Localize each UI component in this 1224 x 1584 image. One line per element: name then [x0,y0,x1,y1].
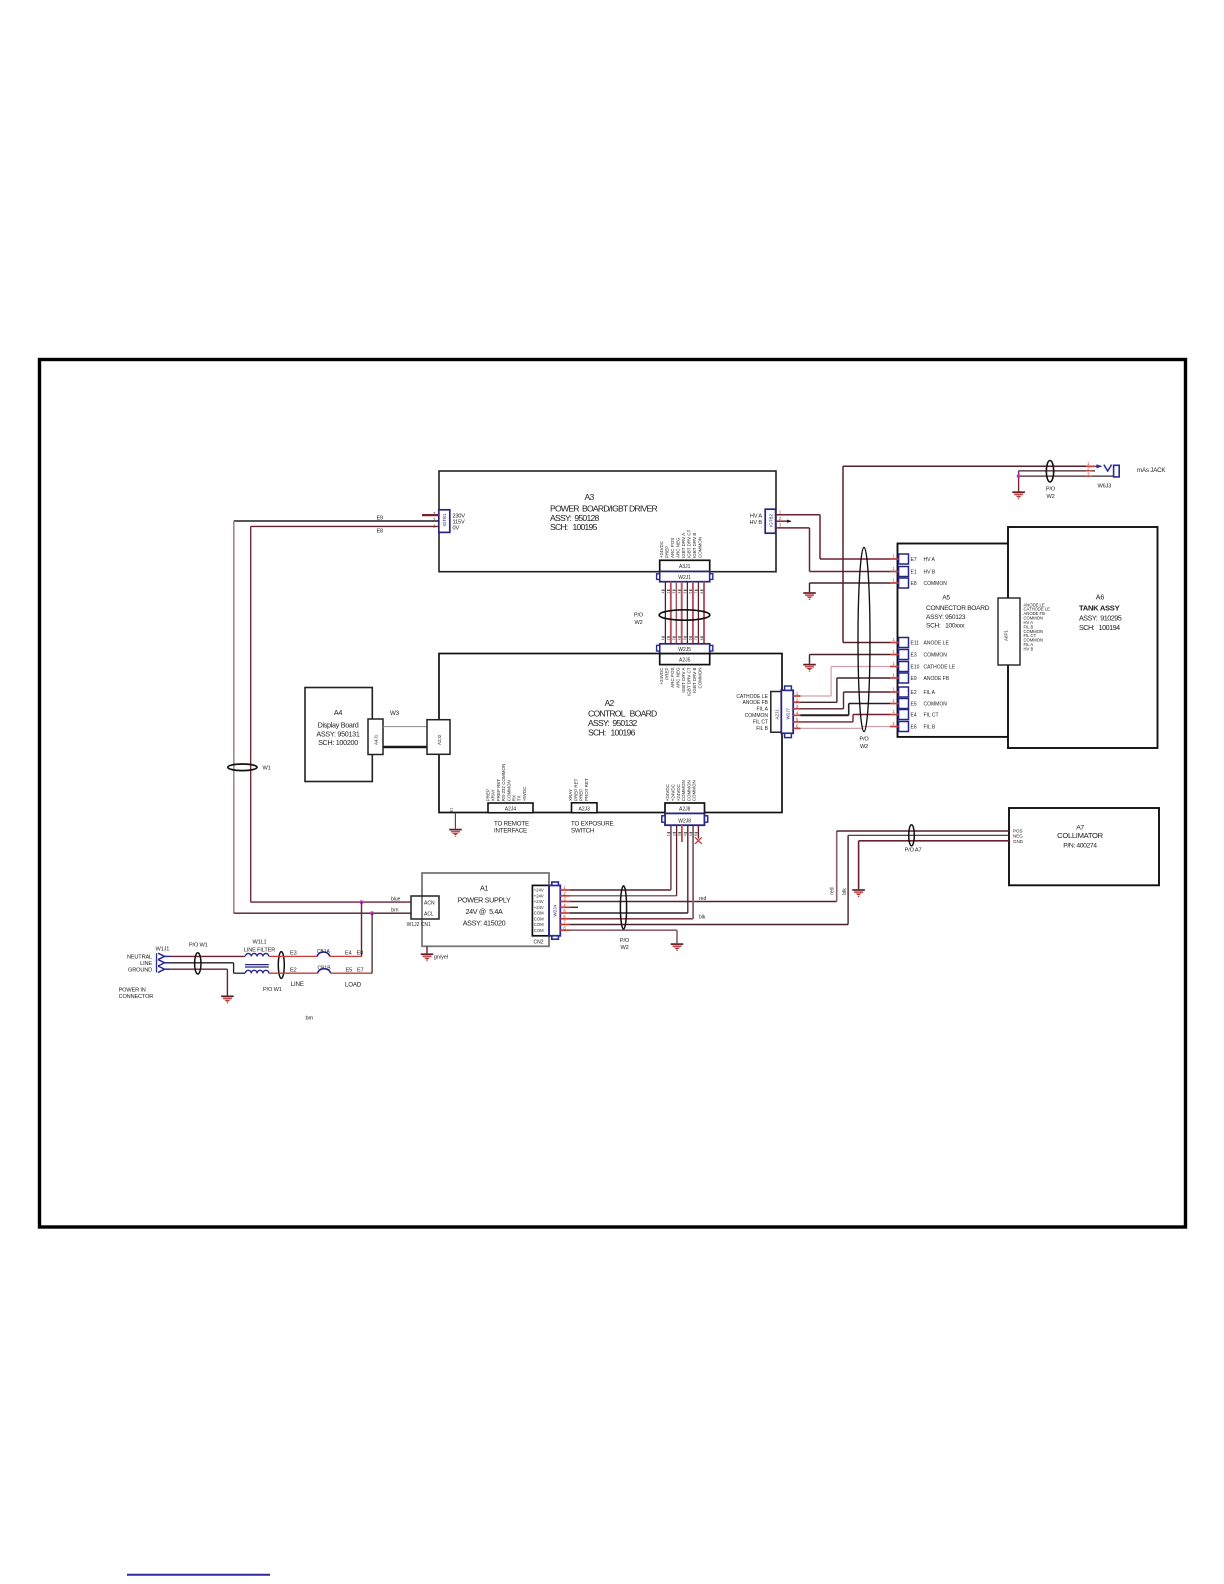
svg-text:3: 3 [672,592,676,594]
cable marker P/O W2 tall ellipse [858,547,870,750]
IGTB2 pin numbers [779,510,782,528]
svg-text:IGTB1: IGTB1 [442,513,447,527]
connector A6P1 [998,598,1020,665]
svg-text:COM: COM [534,922,544,927]
ground gn/yel at A1 [421,946,448,960]
svg-text:W2J5: W2J5 [678,647,691,653]
svg-text:NEG: NEG [1013,833,1023,838]
svg-text:E4: E4 [345,951,352,957]
svg-text:24V @ 5.4A: 24V @ 5.4A [465,907,503,916]
svg-text:+24VDC: +24VDC [676,783,681,801]
cable marker P/O W1 ellipse (left) [189,942,208,974]
terminal E5 COMMON on A5 [890,698,947,709]
svg-text:1: 1 [892,649,895,654]
svg-text:COM: COM [534,928,544,933]
svg-text:E2: E2 [911,690,917,696]
CN2 pin stubs and numbers [560,885,570,930]
svg-text:mAs JACK: mAs JACK [1137,467,1166,474]
breaker CB1B [317,965,331,973]
svg-text:A3J1: A3J1 [679,564,691,570]
svg-text:E6: E6 [911,725,917,731]
cable marker P/O A7 ellipse [905,825,922,854]
svg-text:PREP: PREP [664,668,669,680]
svg-text:LINE FILTER: LINE FILTER [244,947,275,953]
connector A2J3 exposure switch [572,803,598,813]
svg-text:E5: E5 [346,967,353,973]
svg-text:7: 7 [694,592,698,594]
svg-text:+24VDC: +24VDC [665,783,670,801]
wire mAs jack pin1 to E11 [843,466,1092,642]
svg-text:A1: A1 [480,884,488,893]
svg-text:+24V: +24V [534,893,544,898]
svg-text:P/O W1: P/O W1 [263,987,282,993]
svg-text:+24V: +24V [534,899,544,904]
svg-text:+24VDC: +24VDC [671,783,676,801]
svg-text:E7: E7 [357,967,364,973]
connector IGTB2 [765,509,775,533]
svg-text:E3: E3 [911,653,917,659]
svg-text:2: 2 [667,638,671,640]
label POWER IN CONNECTOR [119,988,154,1001]
svg-text:E3: E3 [290,951,297,957]
connector A2J1 [771,692,782,733]
svg-text:POWER BOARD/IGBT DRIVER: POWER BOARD/IGBT DRIVER [550,504,657,514]
svg-text:5: 5 [683,638,687,640]
connector A2J4 [488,803,533,813]
node labels E4 E8 [345,951,363,957]
svg-text:A2J1: A2J1 [774,709,779,720]
block A3 power board/IGBT driver [439,471,776,572]
svg-text:COM: COM [534,916,544,921]
terminal E10 CATHODE LE on A5 [890,661,956,672]
A2J8 pin labels (vertical) [665,780,697,801]
svg-text:1: 1 [892,687,895,692]
wire bundle tick marks row2 [661,637,704,640]
svg-text:POWER SUPPLY: POWER SUPPLY [458,896,511,905]
svg-text:COMMON: COMMON [745,713,769,719]
wire ground drop [170,969,227,995]
svg-text:W2J4: W2J4 [553,905,558,917]
svg-text:E1: E1 [911,570,917,576]
svg-text:COMMON: COMMON [698,668,703,689]
svg-text:SCH: 100xxx: SCH: 100xxx [926,623,965,630]
svg-text:W6J3: W6J3 [1098,484,1112,490]
wire E8 COMMON to ground [810,583,891,592]
wire line to line filter [170,963,245,973]
svg-text:ANODE FB: ANODE FB [924,676,950,682]
svg-text:+24V: +24V [534,905,544,910]
svg-text:SCH: 100200: SCH: 100200 [318,738,358,747]
svg-text:W2J1: W2J1 [678,575,691,581]
wire bundle tick marks row1 [661,590,704,593]
svg-text:W2: W2 [1046,494,1054,500]
connector CN2 [532,885,549,945]
IGTB2 pin labels [750,514,763,526]
svg-text:TO REMOTE: TO REMOTE [494,821,529,828]
svg-text:1: 1 [667,834,671,836]
A2J3 pin labels (vertical) [568,778,589,801]
svg-text:2: 2 [667,592,671,594]
svg-text:P/O: P/O [859,737,869,743]
svg-text:1: 1 [1087,461,1090,466]
wire jack pin2 to ground junction [1019,471,1095,492]
svg-text:red: red [699,896,706,902]
connector W1J1 power in [156,947,170,973]
svg-text:P/N: 400274: P/N: 400274 [1063,843,1097,850]
footer rule [127,1574,270,1576]
svg-text:COMMON: COMMON [924,702,948,708]
svg-text:blk: blk [699,914,706,920]
svg-text:PREP: PREP [664,546,669,558]
cable marker P/O W2 ellipse (jack) [1046,461,1056,500]
svg-text:W1J1: W1J1 [156,947,170,953]
wire E9: IGTB1 pin2 to ACL run [234,521,439,913]
wire A2J1 pin6 to E6 [801,727,891,729]
line filter W1L1 [244,940,275,974]
wire jack pin3 sleeve [1019,475,1114,477]
connector W2J8 [662,813,708,825]
svg-text:CATHODE LE: CATHODE LE [924,665,956,671]
svg-text:COMMON: COMMON [924,581,948,587]
svg-text:7: 7 [694,638,698,640]
svg-text:ARC NEG: ARC NEG [675,667,680,688]
wire E3 COMMON to ground [810,655,891,664]
terminal E11 ANODE LE on A5 [890,637,949,648]
A2J5 pin labels (vertical) [659,667,703,696]
terminal E2 FIL A on A5 [890,687,936,698]
wire CN2 pin4 stub [570,906,578,908]
cable marker P/O W2 ellipse (power wires) [620,886,630,951]
svg-text:1: 1 [661,592,665,594]
svg-text:SCH: 100195: SCH: 100195 [550,522,598,532]
svg-text:SCH: 100194: SCH: 100194 [1079,623,1120,632]
svg-text:4: 4 [678,638,682,640]
svg-text:HV B: HV B [750,520,763,526]
wire E2 segment [269,972,318,974]
ground CN2 pin8 [671,944,684,951]
jack pin numbers [1087,461,1090,477]
connector A2J2 [427,720,450,755]
wire E8: IGTB1 pin1 to ACN run [251,526,439,902]
svg-text:P/O W1: P/O W1 [189,942,208,948]
svg-text:A2J5: A2J5 [679,657,691,663]
svg-text:A3: A3 [584,492,594,502]
svg-text:HV B: HV B [1024,647,1034,652]
svg-text:E4: E4 [911,713,917,719]
wire A2J1 pin4 to E5 [801,704,891,716]
svg-text:POWER IN: POWER IN [119,988,146,994]
svg-text:ARC POS: ARC POS [670,668,675,688]
cable W3 [383,710,427,747]
junction dot jack ground [1017,474,1021,478]
wire IGTB1 pin3 stub [422,514,439,516]
svg-text:3: 3 [779,523,782,528]
W2J8 wire tick marks [667,833,699,836]
connector W2J5 [657,644,713,654]
block A6 tank assy [1008,527,1158,748]
connector W2J7 [781,686,793,738]
svg-text:NEUTRAL: NEUTRAL [127,955,152,961]
svg-text:IGBT DRV CT: IGBT DRV CT [687,667,692,696]
node labels E5 E7 [346,967,364,973]
breaker CB1A [317,949,331,957]
svg-text:W1J2 CN1: W1J2 CN1 [407,922,431,928]
svg-text:3: 3 [678,834,682,836]
svg-text:COMMON: COMMON [686,780,691,801]
svg-text:TANK ASSY: TANK ASSY [1079,604,1120,613]
block A7 collimator [1009,808,1159,885]
svg-text:1: 1 [892,578,895,583]
terminal E7 HV A on A5 [890,554,936,565]
svg-text:1: 1 [892,566,895,571]
block A5 connector board [898,544,1009,737]
svg-text:E1: E1 [450,807,454,812]
svg-text:E5: E5 [911,702,917,708]
svg-text:COM: COM [534,911,544,916]
svg-text:1: 1 [892,721,895,726]
svg-text:2: 2 [672,834,676,836]
svg-text:IGBT DRV B: IGBT DRV B [692,668,697,693]
svg-text:W2: W2 [620,945,628,951]
wire CB1B load to junction [331,913,373,973]
svg-text:A4: A4 [334,708,342,717]
svg-text:1: 1 [892,554,895,559]
ground E8 [803,593,816,600]
svg-text:ACN: ACN [424,900,435,906]
wire CN2 pin5 to W2J8 w4 [570,825,688,913]
svg-text:blk: blk [842,888,848,895]
svg-text:ARC NEG: ARC NEG [675,537,680,558]
svg-text:ASSY: 415020: ASSY: 415020 [463,919,506,928]
ground power-in [221,996,234,1003]
svg-text:1: 1 [661,638,665,640]
wire CN2 pin2 to W2J8 w2 [570,825,677,896]
svg-text:ACL: ACL [424,911,434,917]
svg-text:SWITCH: SWITCH [571,828,594,835]
wire IGTB2 pin1 to E7 [776,515,890,559]
svg-text:6: 6 [689,638,693,640]
svg-text:LINE: LINE [140,961,152,967]
svg-text:4: 4 [678,592,682,594]
connector A2J5 [660,654,710,665]
wire A2J1 pin5 to E4 [801,715,891,722]
svg-text:IGBT DRV CT: IGBT DRV CT [687,529,692,558]
svg-text:COMMON: COMMON [692,780,697,801]
terminal E8 COMMON on A5 [890,578,947,589]
svg-text:W2: W2 [860,744,868,750]
terminal E9 ANODE FB on A5 [890,673,950,684]
svg-text:4: 4 [684,834,688,836]
svg-text:CB1B: CB1B [317,965,331,971]
terminal E1 HV B on A5 [890,566,936,577]
svg-text:E9: E9 [911,676,917,682]
ground E3 [803,665,816,672]
svg-text:E8: E8 [357,951,364,957]
A2J1 pin stubs and numbers [793,691,800,728]
connector CN1 W1J2 [407,896,439,928]
svg-text:1: 1 [892,709,895,714]
wire CN2 pin1 to W2J8 w1 [570,825,671,890]
svg-text:CONNECTOR: CONNECTOR [119,994,154,1000]
svg-text:ANODE FB: ANODE FB [742,700,768,706]
wire IGTB2 pin3 to E1 [776,528,890,572]
svg-text:FIL A: FIL A [757,707,769,713]
A6P1 pin labels [1024,602,1051,651]
svg-text:0V: 0V [453,525,460,531]
svg-text:A2: A2 [604,698,614,708]
svg-text:P/O: P/O [620,938,630,944]
junction dot on blue wire [360,900,364,904]
A3J1 pin labels (vertical) [659,529,703,558]
W2J8 wire6 stub with X [695,825,702,844]
svg-text:gn/yel: gn/yel [434,954,448,960]
svg-text:GND: GND [1013,839,1024,844]
W2J8 wire3 stub [681,825,683,842]
svg-text:blue: blue [391,897,401,903]
svg-text:A4J1: A4J1 [374,734,379,745]
IGTB1 pin numbers [433,511,436,529]
wire A2J1 pin2 to E9 [801,678,891,702]
svg-text:COLLIMATOR: COLLIMATOR [1057,831,1103,840]
wire A2J1 pin3 to E2 [801,692,891,709]
svg-text:CONTROL BOARD: CONTROL BOARD [588,709,657,719]
svg-text:LINE: LINE [291,981,304,988]
svg-text:FIL A: FIL A [924,690,936,696]
svg-text:HV A: HV A [924,557,936,563]
svg-text:1: 1 [892,637,895,642]
svg-text:P/O: P/O [634,613,644,619]
connector A4J1 [368,719,383,755]
wire bundle W2J1 to W2J5 [665,582,704,644]
svg-text:E8: E8 [376,529,383,535]
junction dot on brn wire [370,911,374,915]
cable marker P/O W1 ellipse (right) [263,952,284,993]
svg-text:A2J8: A2J8 [679,807,691,813]
svg-text:brn: brn [391,908,398,914]
cable marker W1 ellipse [228,764,271,772]
svg-text:ASSY: 950132: ASSY: 950132 [588,718,638,728]
terminal E6 FIL B on A5 [890,721,936,732]
wire E3 segment [269,955,317,957]
jack W6J3 mAs [1095,464,1119,489]
svg-text:HV B: HV B [924,570,936,576]
svg-text:W1L1: W1L1 [252,940,266,946]
svg-text:CN2: CN2 [534,940,544,946]
svg-text:E8: E8 [911,581,917,587]
wire A2J1 pin1 to E10 [801,667,891,697]
svg-text:8: 8 [700,638,704,640]
terminal E4 FIL CT on A5 [890,709,939,720]
svg-text:W1: W1 [263,766,271,772]
svg-text:FIL CT: FIL CT [753,720,768,726]
ground mAs jack [1012,492,1025,499]
svg-text:Display Board: Display Board [318,721,359,730]
svg-text:FIL B: FIL B [924,725,936,731]
svg-text:A5: A5 [942,595,950,602]
wire IGTB2 pin2 stub [776,520,792,523]
wire CN2 pin8 to ground [570,930,677,943]
svg-text:P/O: P/O [1046,487,1056,493]
svg-text:IGBT DRV A: IGBT DRV A [681,668,686,693]
svg-text:CATHODE LE: CATHODE LE [736,694,768,700]
svg-text:ASSY: 950123: ASSY: 950123 [926,614,966,621]
ground collimator GND wire [852,841,1009,897]
svg-text:2: 2 [779,516,782,521]
W1J1 pin labels [127,955,152,974]
connector A2J8 [665,803,705,813]
svg-text:COMMON: COMMON [698,537,703,558]
svg-text:1: 1 [892,698,895,703]
connector A3J1 [660,560,710,571]
svg-text:ASSY: 910295: ASSY: 910295 [1079,614,1122,623]
cable marker P/O W2 ellipse (bundle) [634,610,710,626]
svg-text:W2J8: W2J8 [678,818,691,824]
connector W2J1 [657,572,713,582]
svg-text:FIL CT: FIL CT [924,713,939,719]
svg-text:E10: E10 [911,665,920,671]
svg-text:CB1A: CB1A [317,949,331,955]
wire CB1A load to junction [330,902,362,956]
svg-text:brn: brn [306,1016,314,1022]
block A1 power supply [422,873,549,946]
svg-text:PROT RET: PROT RET [584,778,589,801]
svg-text:E7: E7 [911,557,917,563]
svg-text:5: 5 [683,592,687,594]
svg-text:COMMON: COMMON [681,780,686,801]
A2J4 pin labels (vertical) [486,764,527,802]
svg-text:CONNECTOR BOARD: CONNECTOR BOARD [926,605,990,612]
svg-text:A6P1: A6P1 [1004,629,1009,641]
svg-text:W3: W3 [390,710,400,717]
svg-text:W2: W2 [634,620,642,626]
svg-text:GROUND: GROUND [128,967,152,973]
wire CN2 pin6 to W2J8 w5 [570,825,693,919]
svg-text:HV A: HV A [750,514,763,520]
svg-text:COMMON: COMMON [924,653,948,659]
label TO REMOTE INTERFACE [494,821,529,835]
svg-text:6: 6 [689,592,693,594]
svg-text:6: 6 [694,834,698,836]
jack pin stubs [1086,466,1095,476]
svg-text:IGBT DRV A: IGBT DRV A [681,533,686,558]
connector IGTB1 [439,510,450,533]
svg-text:INTERFACE: INTERFACE [494,828,527,835]
svg-text:W2J7: W2J7 [785,708,790,720]
svg-text:TO EXPOSURE: TO EXPOSURE [571,821,613,828]
svg-text:red: red [830,887,836,894]
terminal E3 COMMON on A5 [890,649,947,660]
svg-text:E2: E2 [290,967,297,973]
connector W2J4 (blue shell on CN2) [549,882,560,939]
svg-text:E11: E11 [911,641,920,647]
svg-text:+24VDC: +24VDC [659,540,664,558]
svg-text:IGBT DRV B: IGBT DRV B [692,533,697,558]
svg-text:IGTB2: IGTB2 [769,513,774,527]
svg-text:ARC POS: ARC POS [670,538,675,558]
svg-text:1: 1 [892,673,895,678]
svg-text:ANODE LE: ANODE LE [924,641,950,647]
svg-text:A2J2: A2J2 [437,734,442,745]
svg-text:SCH: 100196: SCH: 100196 [588,728,636,738]
svg-text:+24V: +24V [534,888,544,893]
svg-text:LOAD: LOAD [345,982,362,989]
collimator pin labels [1013,829,1024,844]
node E1 and ground at A2 bottom left [449,807,462,836]
svg-text:5: 5 [689,834,693,836]
svg-text:3: 3 [672,638,676,640]
svg-text:1: 1 [892,661,895,666]
IGTB1 pin labels 230V 115V 0V [453,513,466,531]
